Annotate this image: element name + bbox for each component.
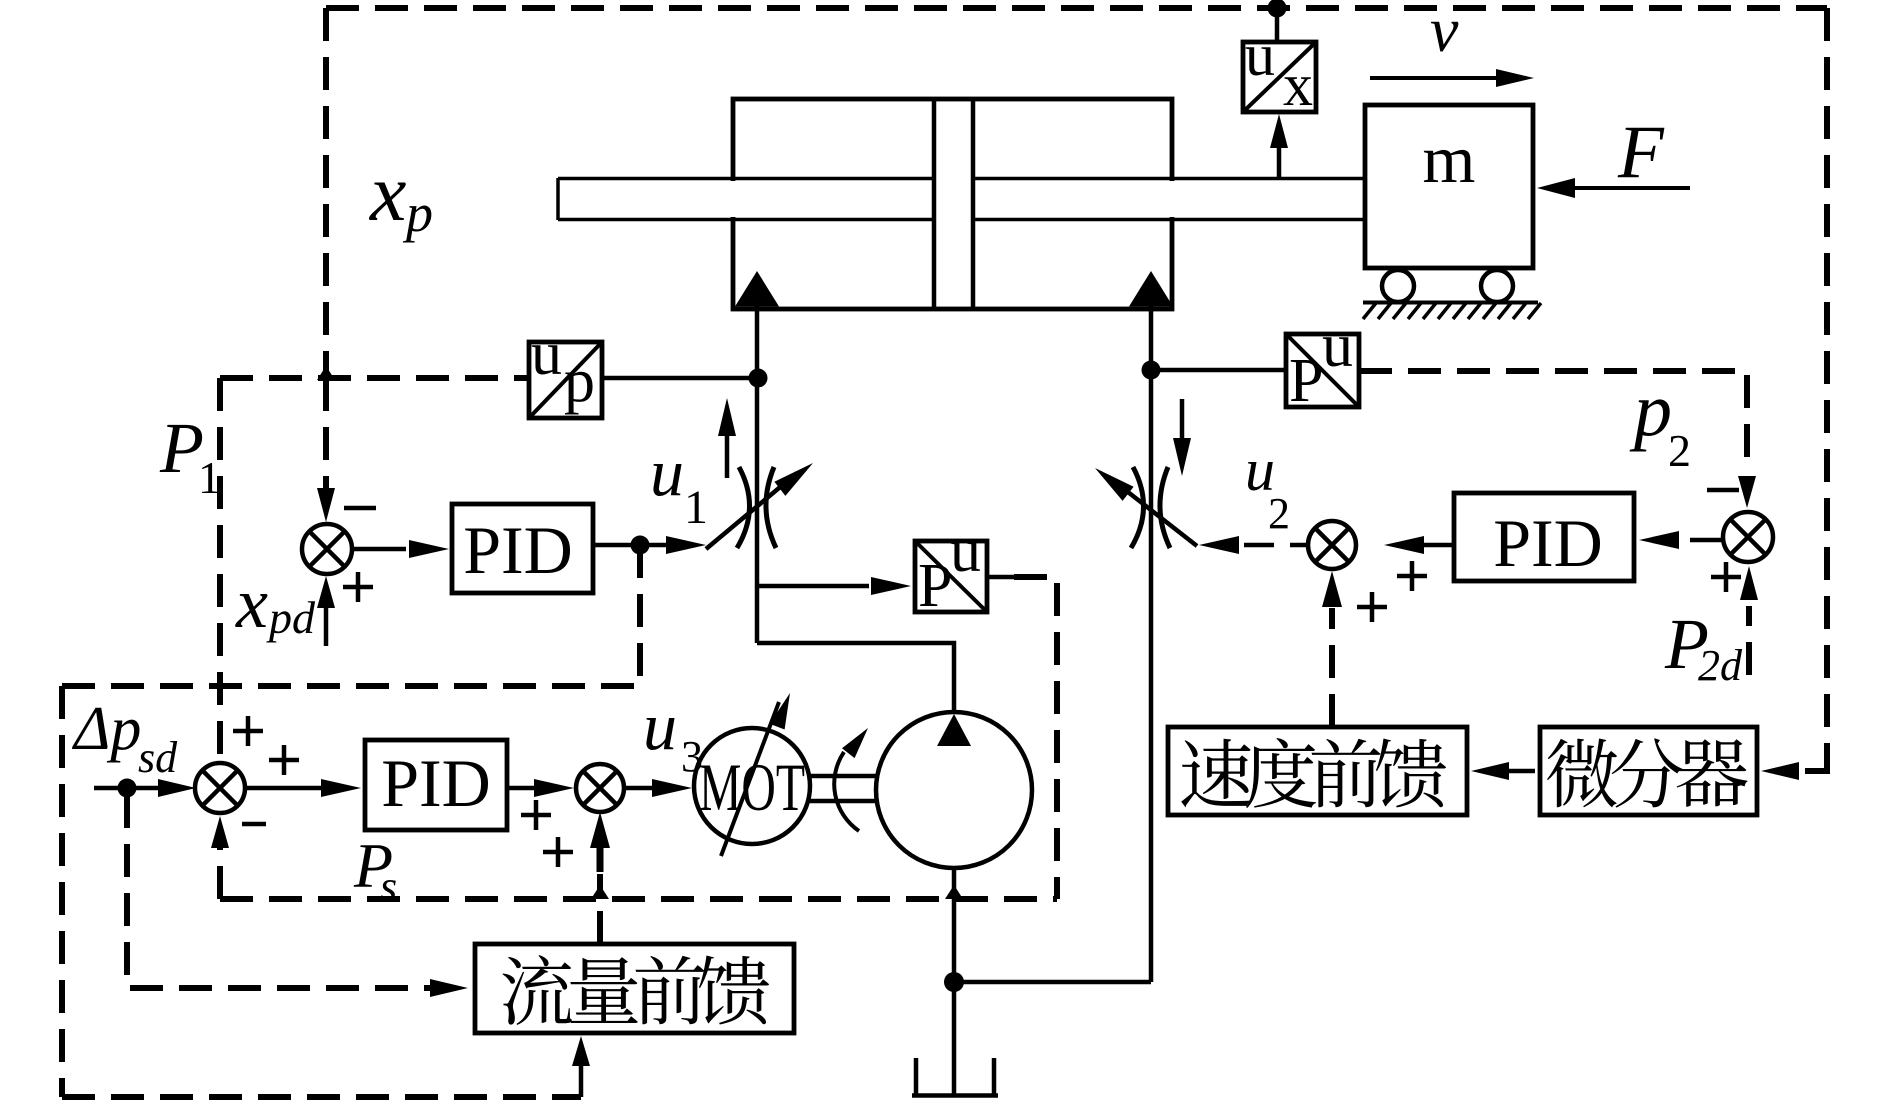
controller PID1 box [452, 504, 593, 593]
wire S1 to PID1 arrow [352, 547, 406, 552]
wire PID2 to S2R arrow [1424, 543, 1454, 548]
svg-text:1: 1 [198, 452, 221, 503]
sensor P/u right input line [1151, 368, 1286, 373]
sensor u/p input line [602, 376, 756, 381]
sign plus at S2L left [521, 800, 551, 830]
shaft coupling lines [810, 774, 876, 779]
wire x_p feedback top dashed line [326, 5, 1827, 11]
motor MOT circle [694, 728, 810, 844]
svg-text:v: v [1430, 0, 1459, 65]
rotation direction arc [834, 752, 859, 831]
ground line with hatching [1363, 301, 1538, 305]
piston [937, 102, 971, 307]
wire PIDs output arrow [507, 786, 536, 791]
svg-text:u: u [950, 517, 981, 585]
wire return line from valve u2 [954, 980, 1151, 985]
flow direction arrow down (right line) [1180, 399, 1185, 440]
sensor P/u middle input arrow [757, 584, 869, 589]
summing junction S3R [1723, 512, 1773, 562]
svg-text:2d: 2d [1698, 641, 1743, 690]
label differentiator text [1547, 739, 1617, 808]
sign plus at S3 top [233, 716, 263, 746]
force F arrow [1573, 186, 1690, 190]
wire x_p dashed line down to sum junction S1 [323, 378, 329, 488]
wire P1 box bottom dashed line [62, 683, 640, 689]
block flow feedforward box [475, 944, 794, 1033]
wire PID1 output dashed down (P1 box right) [637, 545, 643, 686]
wire Ps feedback up into sum [217, 846, 223, 899]
summing junction S3 (pressure margin) [195, 763, 245, 813]
cylinder right port triangle [1129, 271, 1173, 307]
svg-text:s: s [380, 862, 397, 911]
sign plus at S2L bottom [543, 837, 573, 867]
sign minus at S3R top [1707, 488, 1739, 493]
svg-text:pd: pd [266, 592, 316, 643]
wire cylinder left port line [755, 306, 760, 643]
sign plus at S2R right [1397, 561, 1427, 591]
wire flow feedforward up arrow [597, 846, 604, 872]
x_pd input arrow [324, 608, 329, 646]
hydraulic cylinder body [733, 99, 1172, 309]
svg-text:P: P [1289, 347, 1323, 415]
sensor P/u right box [1286, 334, 1359, 407]
tank symbol [912, 1058, 998, 1096]
junction crossing caret flow-ff [591, 885, 609, 899]
mass m box [1365, 105, 1533, 268]
valve u2 adjusting arrow [1110, 478, 1197, 546]
wire pump supply line [757, 643, 954, 712]
svg-text:Δp: Δp [71, 695, 141, 763]
node dot on dp_sd input [118, 779, 137, 798]
node dot PID1 output [631, 536, 650, 555]
wheel left [1382, 270, 1414, 302]
velocity v arrow [1370, 76, 1497, 80]
svg-text:MOT: MOT [699, 749, 805, 825]
flow direction arrow up (left line) [725, 434, 730, 478]
svg-text:u: u [650, 434, 684, 510]
svg-text:u: u [643, 688, 677, 764]
svg-text:x: x [1283, 52, 1313, 118]
wire p1 dashed line down (P1 box left) [217, 378, 223, 758]
sign minus at S1 top [344, 506, 376, 511]
sensor U/X box [1243, 42, 1316, 112]
svg-text:u: u [1245, 22, 1275, 88]
pump circle [876, 712, 1032, 868]
svg-text:x: x [235, 563, 268, 643]
wire speed ff arrow into S2R [1322, 571, 1342, 607]
summing junction S1 [302, 524, 352, 574]
valve u1 adjusting arrow [706, 473, 797, 549]
label flow feedforward text [502, 955, 571, 1025]
summing junction S2L [576, 764, 624, 812]
valve u2 throttle arcs [1131, 467, 1144, 548]
wire arrow from rod to u/x sensor [1277, 146, 1282, 178]
junction crossing caret pump suction [945, 885, 963, 899]
svg-text:PID: PID [381, 745, 491, 821]
wire Ps sensor output [987, 575, 1014, 580]
wire outer right edge into differentiator [1805, 767, 1827, 771]
svg-text:u: u [1322, 312, 1353, 380]
node dot at p2 tap [1142, 361, 1161, 380]
svg-text:u: u [531, 320, 562, 388]
svg-text:P: P [918, 552, 952, 620]
motor variable arrow [721, 702, 779, 856]
wire p1 sensor output dashed (P1 box top) [220, 375, 529, 381]
node dot at u/p tap [749, 369, 768, 388]
valve u1 throttle arcs [737, 467, 750, 548]
svg-text:sd: sd [138, 733, 178, 782]
sign plus at S3R bottom [1711, 562, 1741, 592]
svg-text:1: 1 [684, 481, 708, 534]
sign plus at S1 bottom [343, 572, 373, 602]
wire dp_sd input line [94, 786, 158, 791]
wire S3R to PID2 arrow [1690, 538, 1723, 543]
controller PIDs box [365, 740, 507, 830]
wire Ps feedback bottom dashed line [220, 896, 1057, 902]
svg-text:p: p [402, 183, 433, 243]
wire speed ff output dashed up [1329, 608, 1335, 727]
wire S3 to PIDs arrow [245, 786, 322, 791]
svg-text:F: F [1617, 111, 1665, 194]
junction crossing caret at x_p / p1 lines [317, 366, 335, 380]
wire outer dashed box left edge [59, 686, 65, 1097]
block speed feedforward box [1168, 727, 1467, 815]
wire x_p feedback left dashed line [323, 8, 329, 378]
wheel right [1481, 270, 1513, 302]
svg-text:2: 2 [1268, 489, 1290, 538]
label speed feedforward text [1181, 739, 1251, 808]
wire node down dashed to flow feedforward [127, 795, 430, 988]
wire dashed from flow feedforward box top [597, 874, 603, 944]
wire pump suction line [952, 868, 957, 982]
block differentiator box [1540, 727, 1757, 815]
node dot at tank junction [944, 972, 964, 992]
wire arrow up into flow feedforward box [579, 1064, 584, 1097]
wire PID1 output to node [593, 543, 640, 548]
wire cylinder right port line [1149, 306, 1154, 982]
valve u1 control arrow from PID [645, 543, 668, 548]
wire x_p feedback right dashed line [1824, 8, 1830, 767]
sign minus at S3 bottom [242, 822, 266, 827]
wire S2L to MOT arrow [624, 786, 654, 791]
svg-text:PID: PID [463, 512, 573, 588]
sign plus at S2R bottom-left [1357, 592, 1387, 622]
svg-text:p: p [564, 347, 595, 415]
svg-text:PID: PID [1493, 505, 1603, 581]
cylinder left port triangle [735, 271, 779, 307]
svg-text:p: p [1629, 368, 1672, 452]
wire differentiator to speed ff arrow [1509, 769, 1535, 774]
wire outer dashed box bottom edge [62, 1094, 581, 1100]
wire u/x output stub to top line [1275, 8, 1280, 42]
controller PID2 box [1454, 493, 1634, 581]
piston rod (double-ended) [560, 181, 1363, 217]
svg-text:x: x [369, 147, 406, 238]
pump triangle [937, 714, 971, 746]
sensor U/P box [529, 342, 602, 418]
wire P2d input dashed [1746, 606, 1752, 675]
summing junction S2R [1308, 521, 1356, 569]
sensor P/u middle box [915, 541, 987, 612]
svg-text:m: m [1423, 121, 1476, 197]
node junction dot on x_p line above u/x [1268, 0, 1287, 18]
wire p2 sensor output dashed [1359, 371, 1747, 470]
svg-text:2: 2 [1668, 425, 1691, 476]
sign plus at S3 right [269, 745, 299, 775]
valve u2 control arrow from sum S2R [1244, 543, 1308, 548]
